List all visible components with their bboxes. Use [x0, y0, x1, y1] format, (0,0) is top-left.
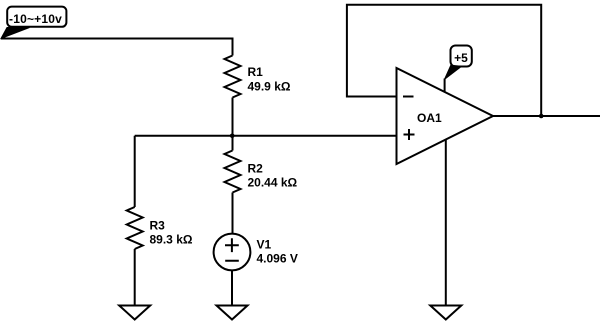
resistor R1 [225, 56, 291, 98]
ground (op-amp) [430, 306, 461, 320]
wire feedback top [347, 5, 541, 116]
wire V1 to ground [231, 270, 233, 305]
wire R3 to ground [134, 249, 136, 306]
svg-text:R3: R3 [150, 219, 166, 233]
svg-text:-10~+10v: -10~+10v [9, 12, 62, 26]
net flag +5 [445, 46, 472, 92]
ground (V1) [217, 306, 248, 320]
svg-text:R1: R1 [248, 65, 264, 79]
wire R1 to node A [232, 98, 234, 136]
svg-text:+5: +5 [454, 51, 468, 65]
wire node A down to R2 [232, 136, 234, 151]
ground (R3) [119, 306, 150, 320]
wire R2 to V1 [232, 193, 234, 234]
resistor R2 [225, 151, 298, 193]
wire node A to R3 [134, 136, 136, 207]
svg-text:OA1: OA1 [417, 111, 442, 125]
svg-text:20.44 kΩ: 20.44 kΩ [248, 176, 298, 190]
net flag -10~+10v [1, 7, 66, 39]
svg-text:R2: R2 [248, 162, 264, 176]
svg-text:89.3 kΩ: 89.3 kΩ [150, 233, 193, 247]
op-amp OA1 [397, 68, 494, 164]
wire op-amp V- supply to ground [445, 140, 447, 306]
wire output [493, 115, 600, 117]
svg-text:V1: V1 [257, 238, 272, 252]
resistor R3 [127, 207, 193, 249]
node output junction dot [539, 114, 544, 119]
node A junction dot [230, 134, 235, 139]
wire node A horizontal to op-amp + input [135, 135, 397, 137]
svg-text:4.096 V: 4.096 V [257, 252, 298, 266]
voltage source V1 [214, 234, 298, 271]
svg-text:49.9 kΩ: 49.9 kΩ [248, 80, 291, 94]
wire input to R1 [1, 39, 233, 56]
